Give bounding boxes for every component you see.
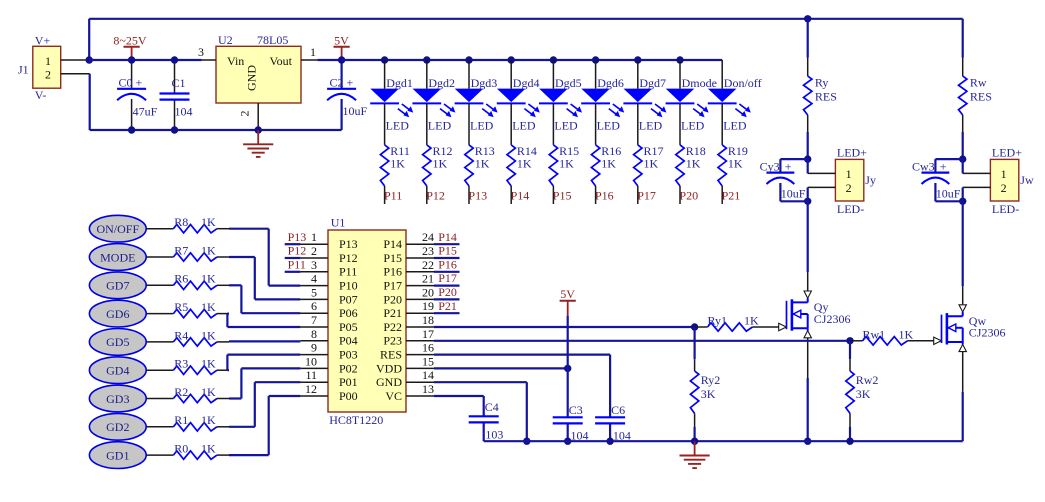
node 5V rail LED 7: [634, 56, 641, 63]
svg-text:1K: 1K: [728, 156, 743, 170]
node 5V rail LED 1: [381, 56, 388, 63]
port ON/OFF: [89, 215, 146, 242]
svg-text:P16: P16: [438, 257, 457, 271]
svg-text:14: 14: [422, 368, 434, 382]
svg-text:22: 22: [422, 258, 434, 272]
svg-text:P04: P04: [339, 334, 358, 348]
node 5V rail LED 8: [676, 56, 683, 63]
IC U1 HC8T1220: [328, 216, 406, 428]
svg-text:Dgd5: Dgd5: [555, 76, 582, 90]
pin Qy drain: [804, 272, 811, 302]
svg-text:C4: C4: [485, 400, 499, 414]
resistor R16 1K: [591, 103, 621, 204]
connector J1: [18, 34, 61, 103]
svg-text:P01: P01: [339, 375, 358, 389]
svg-text:C6: C6: [611, 403, 625, 417]
wire GD6 to U1: [227, 314, 300, 327]
node C0 bottom: [128, 126, 135, 133]
svg-text:Dgd4: Dgd4: [513, 76, 540, 90]
svg-text:P21: P21: [438, 299, 457, 313]
svg-text:P11: P11: [288, 257, 306, 271]
svg-text:2: 2: [846, 181, 852, 195]
port GD7: [89, 272, 146, 299]
pin U1.21 P17: [383, 272, 434, 293]
pin U1.23 P15: [383, 244, 434, 265]
svg-text:78L05: 78L05: [257, 33, 288, 47]
svg-text:P15: P15: [438, 244, 457, 258]
net label P20: [434, 285, 460, 299]
pin Jy.1: [808, 159, 836, 173]
svg-text:R7: R7: [174, 243, 188, 257]
wire GD7 to U1: [229, 285, 300, 313]
svg-text:24: 24: [422, 230, 434, 244]
resistor R1 1K: [146, 413, 229, 431]
svg-text:1K: 1K: [201, 243, 216, 257]
svg-text:1K: 1K: [686, 156, 701, 170]
pin U1.6 P06: [300, 299, 357, 320]
net label P13: [468, 188, 487, 202]
pin U1.24 P14: [383, 230, 434, 251]
svg-text:10: 10: [305, 354, 317, 368]
svg-text:P20: P20: [438, 285, 457, 299]
net label P15: [553, 188, 572, 202]
port GD2: [89, 413, 146, 440]
svg-text:R0: R0: [174, 442, 188, 456]
pin U1.15 VDD: [376, 354, 434, 375]
svg-text:Vout: Vout: [270, 54, 293, 68]
svg-text:R6: R6: [174, 272, 188, 286]
pin Jw.1: [963, 159, 991, 173]
connector Jw box: [990, 146, 1034, 217]
net label P13: [285, 230, 307, 244]
svg-text:GD6: GD6: [106, 307, 129, 321]
net label P21: [434, 299, 460, 313]
pin U1.9 P03: [300, 341, 357, 362]
svg-text:C2 +: C2 +: [330, 75, 354, 89]
wire ON/OFF to U1: [229, 229, 300, 286]
svg-text:GD3: GD3: [106, 392, 129, 406]
capacitor C0 47uF: [117, 60, 158, 130]
resistor R3 1K: [146, 357, 229, 375]
svg-text:R1: R1: [174, 413, 188, 427]
wire bottom ground rail: [484, 440, 963, 442]
node Jw bottom: [959, 198, 966, 205]
wire top rail from J1 to Rw: [89, 18, 963, 20]
resistor R18 1K: [676, 103, 706, 204]
svg-text:CJ2306: CJ2306: [814, 312, 851, 326]
resistor R11 1K: [380, 103, 409, 204]
svg-text:17: 17: [422, 327, 434, 341]
svg-text:P13: P13: [339, 237, 358, 251]
resistor R8 1K: [146, 215, 229, 233]
wire Vout to C2: [317, 59, 341, 61]
svg-text:1: 1: [311, 230, 317, 244]
svg-text:10uF: 10uF: [343, 104, 368, 118]
svg-text:P06: P06: [339, 306, 358, 320]
svg-text:1K: 1K: [899, 327, 914, 341]
svg-text:16: 16: [422, 341, 434, 355]
pin J1.2 wire: [61, 73, 90, 75]
svg-text:GD4: GD4: [106, 364, 129, 378]
port GD4: [89, 357, 146, 384]
capacitor C6 104: [595, 403, 631, 443]
LED Dmode: [666, 60, 717, 133]
net label P20: [679, 188, 698, 202]
LED Don/off: [708, 60, 762, 133]
pin U2.3 Vin: [198, 45, 216, 60]
capacitor C4 103: [469, 400, 504, 442]
pin U1.3 P11: [300, 258, 357, 279]
wire P22 net U1.18 to Ry1: [434, 326, 695, 328]
svg-text:1K: 1K: [201, 328, 216, 342]
svg-text:LED-: LED-: [837, 202, 864, 216]
svg-text:P02: P02: [339, 361, 358, 375]
svg-text:47uF: 47uF: [133, 105, 158, 119]
wire MODE to U1: [229, 257, 300, 299]
resistor Ry1 1K: [695, 314, 779, 332]
svg-text:LED-: LED-: [992, 202, 1019, 216]
node 5V rail LED 3: [465, 56, 472, 63]
svg-text:1K: 1K: [601, 156, 616, 170]
svg-text:103: 103: [485, 428, 503, 442]
svg-text:LED: LED: [470, 119, 494, 133]
svg-text:P20: P20: [679, 188, 698, 202]
node 5V rail LED 5: [550, 56, 557, 63]
svg-text:P14: P14: [383, 237, 402, 251]
wire input rail J1 to U2 Vin: [89, 59, 201, 61]
svg-text:6: 6: [311, 299, 317, 313]
svg-text:P16: P16: [383, 265, 402, 279]
node Jy top: [804, 155, 811, 162]
resistor R0 1K: [146, 442, 229, 460]
node J1 output: [86, 56, 93, 63]
node Ry2 rail: [691, 438, 698, 445]
svg-text:Dgd2: Dgd2: [428, 76, 455, 90]
svg-text:Rw: Rw: [970, 75, 987, 89]
capacitor C2 10uF: [327, 60, 367, 130]
pin U1.5 P07: [300, 285, 357, 306]
svg-text:Ry2: Ry2: [701, 373, 721, 387]
svg-text:2: 2: [237, 111, 251, 117]
node 5V rail LED 6: [592, 56, 599, 63]
svg-text:C1: C1: [172, 76, 186, 90]
capacitor C1 104: [160, 60, 193, 130]
node 5V rail LED 2: [423, 56, 430, 63]
svg-text:P14: P14: [438, 230, 457, 244]
resistor R2 1K: [146, 385, 229, 403]
pin U1.12 P00: [300, 382, 357, 403]
pin Qw gate arrow: [934, 337, 942, 344]
pin U1.18 P22: [383, 313, 434, 334]
svg-text:1: 1: [846, 167, 852, 181]
svg-text:Rw1: Rw1: [863, 327, 886, 341]
pin U1.10 P02: [300, 354, 357, 375]
svg-text:1: 1: [45, 54, 51, 68]
svg-text:P14: P14: [511, 188, 530, 202]
node VDD 5V junction: [564, 365, 571, 372]
svg-text:5V: 5V: [334, 34, 349, 48]
svg-text:3: 3: [198, 45, 204, 59]
pin U2.2 GND: [237, 103, 258, 130]
svg-text:P07: P07: [339, 292, 358, 306]
svg-text:Cw3: Cw3: [912, 160, 935, 174]
svg-text:P22: P22: [383, 320, 402, 334]
regulator U2 78L05: [216, 33, 301, 103]
pin Qy gate arrow: [779, 323, 787, 330]
node 5V rail LED 4: [508, 56, 515, 63]
svg-text:P11: P11: [384, 188, 402, 202]
svg-text:P17: P17: [438, 271, 457, 285]
svg-text:P21: P21: [383, 306, 402, 320]
transistor Qy CJ2306: [787, 299, 851, 330]
power 5V: [334, 34, 350, 61]
svg-text:12: 12: [305, 382, 317, 396]
svg-text:Vin: Vin: [227, 54, 244, 68]
wire GD5 to U1: [229, 340, 300, 342]
net label P11: [384, 188, 402, 202]
pin U1.13 VC: [385, 382, 434, 403]
svg-text:LED: LED: [639, 119, 663, 133]
net label P16: [434, 257, 460, 271]
node Jw top: [959, 155, 966, 162]
wire VC net U1.13 to C4: [434, 396, 484, 416]
node Qy source rail: [804, 438, 811, 445]
svg-text:P12: P12: [288, 244, 307, 258]
svg-text:LED: LED: [597, 119, 621, 133]
svg-text:V+: V+: [35, 34, 51, 48]
wire RES net U1.16 to C6: [434, 355, 610, 418]
LED Dgd3: [455, 60, 498, 133]
svg-text:1K: 1K: [201, 215, 216, 229]
svg-text:U2: U2: [218, 33, 233, 47]
svg-text:RES: RES: [380, 348, 402, 362]
svg-text:1: 1: [310, 45, 316, 59]
transistor Qw CJ2306: [942, 313, 1006, 344]
svg-text:C3: C3: [569, 403, 583, 417]
node Ry1/Ry2 junction: [691, 323, 698, 330]
svg-text:1: 1: [1001, 167, 1007, 181]
wire left ground rail: [90, 129, 342, 131]
net label P16: [595, 188, 614, 202]
wire GD2 to U1: [229, 382, 300, 427]
svg-text:13: 13: [422, 382, 434, 396]
port GD6: [89, 300, 146, 327]
svg-text:Dgd3: Dgd3: [471, 76, 498, 90]
svg-text:7: 7: [311, 313, 317, 327]
svg-text:1K: 1K: [201, 272, 216, 286]
svg-text:ON/OFF: ON/OFF: [96, 222, 139, 236]
svg-text:J1: J1: [18, 63, 29, 77]
net label P12: [426, 188, 445, 202]
svg-text:3K: 3K: [701, 387, 716, 401]
wire J1.2 down to ground rail: [89, 74, 91, 130]
net label P17: [434, 271, 460, 285]
pin U2.1 Vout: [301, 45, 317, 60]
LED Dgd7: [623, 60, 666, 133]
pin Qw source: [959, 342, 966, 392]
wire GD1 to U1: [229, 396, 300, 455]
wire Qw source to ground rail: [962, 392, 964, 441]
resistor R6 1K: [146, 272, 229, 290]
svg-text:P21: P21: [722, 188, 741, 202]
resistor Rw RES: [959, 19, 992, 159]
svg-text:2: 2: [311, 244, 317, 258]
svg-text:LED: LED: [554, 119, 578, 133]
resistor R15 1K: [549, 103, 579, 204]
net label P17: [637, 188, 656, 202]
svg-text:GD7: GD7: [106, 279, 129, 293]
svg-text:P13: P13: [468, 188, 487, 202]
node GND rail: [523, 438, 530, 445]
svg-text:3: 3: [311, 258, 317, 272]
wire J1 up to top rail: [88, 19, 90, 60]
resistor R14 1K: [507, 103, 537, 204]
resistor R17 1K: [634, 103, 664, 204]
svg-text:P12: P12: [339, 251, 358, 265]
svg-text:GD2: GD2: [106, 420, 129, 434]
node C1 top: [171, 56, 178, 63]
svg-text:3K: 3K: [856, 387, 871, 401]
wire Jw to Qw drain: [962, 201, 964, 286]
svg-text:11: 11: [305, 368, 317, 382]
wire P23 net U1.17 to Rw1: [434, 340, 850, 342]
resistor R19 1K: [718, 103, 748, 204]
pin Jw.2: [963, 187, 991, 201]
svg-text:U1: U1: [331, 216, 346, 230]
svg-text:LED: LED: [723, 119, 747, 133]
svg-text:+: +: [785, 160, 792, 174]
resistor R7 1K: [146, 243, 229, 261]
ground: [243, 130, 273, 157]
svg-text:1K: 1K: [201, 357, 216, 371]
svg-text:P11: P11: [339, 265, 357, 279]
capacitor C3 104: [553, 403, 589, 443]
svg-text:Ry1: Ry1: [708, 314, 728, 328]
pin U1.11 P01: [300, 368, 357, 389]
svg-text:Dgd6: Dgd6: [597, 76, 624, 90]
svg-text:GND: GND: [376, 375, 402, 389]
svg-text:LED+: LED+: [992, 146, 1022, 160]
svg-text:20: 20: [422, 285, 434, 299]
svg-text:5: 5: [311, 285, 317, 299]
pin U1.17 P23: [383, 327, 434, 348]
wire to Cw3 top: [935, 159, 962, 173]
svg-text:MODE: MODE: [100, 250, 135, 264]
svg-text:P15: P15: [553, 188, 572, 202]
svg-text:1K: 1K: [201, 442, 216, 456]
net label P14: [511, 188, 530, 202]
port MODE: [89, 244, 146, 271]
svg-text:Jy: Jy: [865, 173, 876, 187]
node C3 rail: [564, 438, 571, 445]
svg-text:P23: P23: [383, 334, 402, 348]
svg-text:9: 9: [311, 341, 317, 355]
svg-text:LED: LED: [386, 119, 410, 133]
pin Qw drain: [959, 286, 966, 316]
svg-text:P13: P13: [288, 230, 307, 244]
svg-text:P03: P03: [339, 348, 358, 362]
LED Dgd5: [539, 60, 582, 133]
svg-text:8~25V: 8~25V: [113, 34, 146, 48]
wire to Cy3 top: [780, 159, 807, 173]
svg-text:VC: VC: [385, 389, 402, 403]
svg-text:1K: 1K: [201, 300, 216, 314]
svg-text:18: 18: [422, 313, 434, 327]
svg-text:Dgd1: Dgd1: [386, 76, 413, 90]
pin U1.20 P20: [383, 285, 434, 306]
resistor R5 1K: [146, 300, 229, 318]
svg-text:10uF: 10uF: [781, 187, 806, 201]
svg-text:1K: 1K: [433, 156, 448, 170]
svg-text:2: 2: [1001, 181, 1007, 195]
capacitor Cw3 10uF: [912, 160, 961, 202]
svg-text:Dmode: Dmode: [682, 76, 717, 90]
svg-text:1K: 1K: [517, 156, 532, 170]
node C1 bottom: [171, 126, 178, 133]
svg-text:V-: V-: [35, 88, 47, 102]
svg-text:Don/off: Don/off: [724, 76, 762, 90]
svg-text:P10: P10: [339, 279, 358, 293]
wire Cw3 bottom: [935, 200, 962, 202]
svg-text:19: 19: [422, 299, 434, 313]
svg-text:15: 15: [422, 354, 434, 368]
svg-text:P15: P15: [383, 251, 402, 265]
pin U1.7 P05: [300, 313, 357, 334]
svg-text:P12: P12: [426, 188, 445, 202]
svg-text:Jw: Jw: [1020, 173, 1034, 187]
svg-text:LED+: LED+: [837, 146, 867, 160]
pin U1.19 P21: [383, 299, 434, 320]
svg-text:HC8T1220: HC8T1220: [329, 413, 383, 427]
net label P15: [434, 244, 460, 258]
svg-text:P17: P17: [637, 188, 656, 202]
net label P14: [434, 230, 460, 244]
connector Jy box: [835, 146, 876, 217]
svg-text:GD1: GD1: [106, 448, 129, 462]
svg-text:P16: P16: [595, 188, 614, 202]
wire Jy to Qy drain: [807, 201, 809, 272]
resistor Rw2 3K: [846, 341, 879, 441]
pin J1.1 wire: [61, 59, 89, 61]
svg-text:LED: LED: [428, 119, 452, 133]
power 8~25V: [113, 34, 146, 61]
svg-text:104: 104: [175, 105, 193, 119]
pin Jy.2: [808, 187, 836, 201]
capacitor Cy3 10uF: [760, 160, 806, 202]
resistor Ry2 3K: [690, 327, 720, 441]
node Jy bottom: [804, 198, 811, 205]
svg-text:Dgd7: Dgd7: [639, 76, 666, 90]
pin U1.2 P12: [300, 244, 357, 265]
svg-text:R5: R5: [174, 300, 188, 314]
svg-text:Rw2: Rw2: [856, 373, 879, 387]
wire GND net U1.14 down: [434, 382, 527, 441]
svg-text:1K: 1K: [475, 156, 490, 170]
wire VDD net U1.15 to 5V: [434, 367, 568, 369]
svg-text:+: +: [940, 160, 947, 174]
node C0 top: [128, 56, 135, 63]
wire 5V rail to LEDs: [342, 59, 723, 61]
svg-text:P20: P20: [383, 292, 402, 306]
wire Qy source to ground rail: [807, 378, 809, 441]
svg-text:CJ2306: CJ2306: [969, 326, 1006, 340]
svg-text:5V: 5V: [560, 287, 575, 301]
svg-text:P17: P17: [383, 279, 402, 293]
svg-text:Cy3: Cy3: [760, 160, 780, 174]
wire GD4 to U1: [227, 355, 300, 371]
node U2 GND: [255, 126, 262, 133]
pin U1.8 P04: [300, 327, 357, 348]
